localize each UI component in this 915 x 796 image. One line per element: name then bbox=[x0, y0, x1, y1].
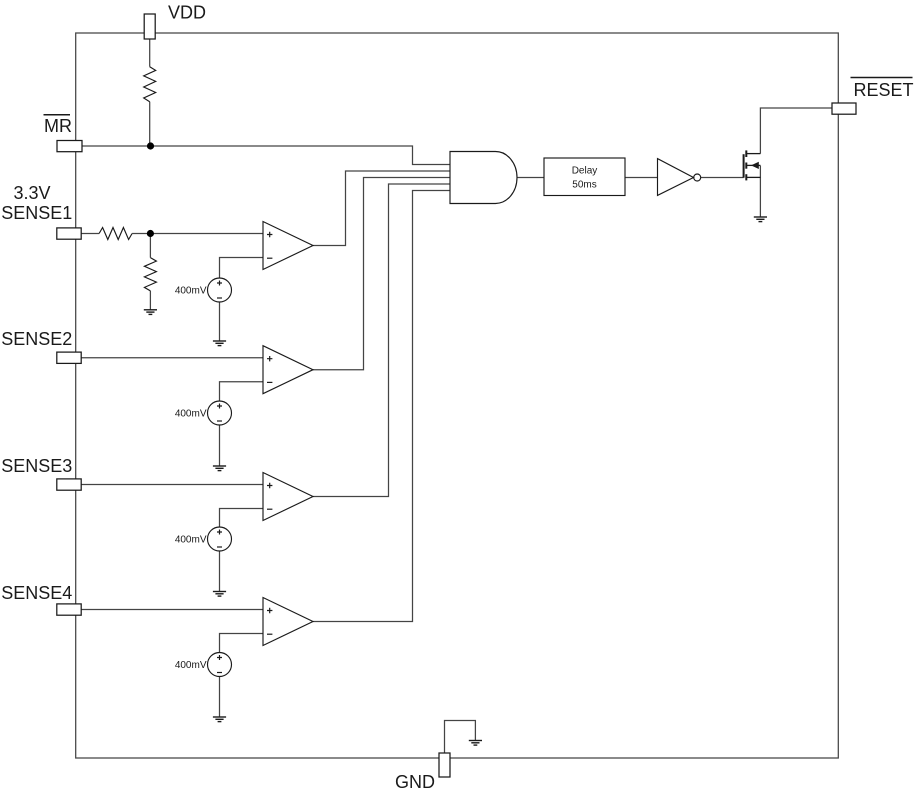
svg-text:400mV: 400mV bbox=[175, 409, 207, 420]
svg-text:400mV: 400mV bbox=[175, 286, 207, 297]
svg-text:Delay: Delay bbox=[572, 165, 598, 176]
svg-text:SENSE4: SENSE4 bbox=[1, 583, 72, 603]
svg-text:SENSE1: SENSE1 bbox=[1, 203, 72, 223]
svg-text:SENSE2: SENSE2 bbox=[1, 329, 72, 349]
svg-text:GND: GND bbox=[395, 772, 435, 792]
svg-text:50ms: 50ms bbox=[572, 180, 596, 191]
svg-text:RESET: RESET bbox=[854, 80, 914, 100]
svg-text:VDD: VDD bbox=[168, 3, 206, 23]
svg-text:SENSE3: SENSE3 bbox=[1, 456, 72, 476]
svg-text:3.3V: 3.3V bbox=[14, 183, 51, 203]
svg-text:400mV: 400mV bbox=[175, 535, 207, 546]
svg-text:MR: MR bbox=[44, 116, 72, 136]
svg-text:400mV: 400mV bbox=[175, 660, 207, 671]
